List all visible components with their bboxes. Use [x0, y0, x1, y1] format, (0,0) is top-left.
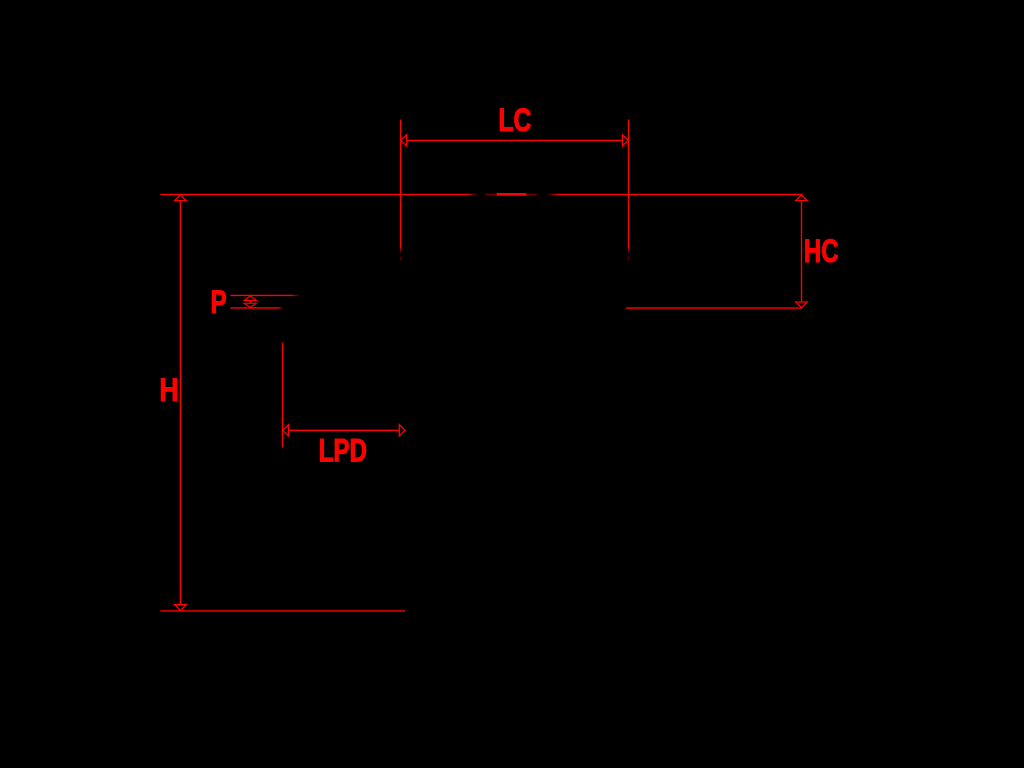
dimension LPD arrow right — [399, 425, 405, 436]
svg-text:P: P — [211, 284, 227, 320]
dimension LC extension line left — [400, 120, 401, 261]
label HC — [804, 233, 839, 269]
dimension LC arrow right — [622, 135, 628, 146]
dimension P arrow up — [244, 296, 256, 303]
top reference line fade left — [467, 194, 498, 195]
svg-text:HC: HC — [804, 233, 839, 269]
dimension LPD extension line — [282, 342, 283, 450]
dimension HC line — [801, 200, 803, 302]
dimension LC extension line right — [628, 120, 629, 261]
svg-text:H: H — [159, 372, 178, 408]
dimension H arrow top — [175, 195, 187, 201]
dimension H line — [179, 200, 181, 605]
top reference line fade right — [526, 194, 559, 195]
dimension LPD arrow left — [283, 425, 289, 436]
dimension LC line — [401, 139, 629, 141]
top reference line center dash — [497, 193, 526, 196]
dimension P top line — [231, 295, 300, 296]
dimension HC arrow bottom — [796, 302, 808, 308]
label LPD — [319, 432, 367, 468]
HC bottom reference line — [626, 307, 802, 309]
label P — [211, 284, 227, 320]
bottom reference line — [160, 610, 405, 612]
dimension H arrow bottom — [175, 605, 187, 611]
svg-text:LC: LC — [498, 102, 531, 138]
dimension LC arrow left — [401, 135, 407, 146]
dimension P arrow down — [244, 303, 256, 307]
top reference line right segment — [560, 193, 803, 195]
dimension LPD line — [283, 429, 406, 431]
svg-text:LPD: LPD — [319, 432, 367, 468]
dimension HC arrow top — [796, 195, 808, 201]
label H — [159, 372, 178, 408]
dimension P bottom line — [231, 307, 284, 308]
label LC — [498, 102, 531, 138]
top reference line left segment — [160, 193, 466, 195]
